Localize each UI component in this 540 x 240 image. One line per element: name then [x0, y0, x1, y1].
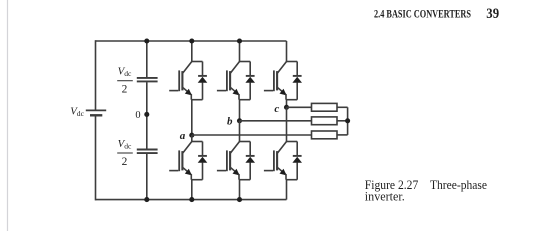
wire: leg b midpoint lower: [239, 121, 241, 142]
wire: phase c output line: [287, 106, 312, 108]
junction: bottom rail / capacitor leg: [144, 197, 149, 202]
svg-text:a: a: [180, 130, 186, 142]
phase b upper emitter join wire: [239, 99, 250, 101]
junction: load neutral point: [345, 118, 350, 123]
wire: leg a midpoint lower: [191, 135, 193, 141]
wire: left source wire upper: [95, 40, 97, 109]
IGBT Q1 (phase a upper): [169, 62, 192, 100]
phase c lower emitter join wire: [286, 179, 297, 181]
svg-text:2: 2: [122, 84, 128, 96]
node c (phase output): [284, 105, 289, 110]
svg-text:39: 39: [486, 6, 499, 22]
wire: leg a bottom rail drop: [191, 180, 193, 200]
IGBT Q4 (phase a lower): [169, 142, 192, 180]
diode D4 (antiparallel, phase a lower): [198, 142, 208, 180]
svg-text:2: 2: [122, 156, 128, 168]
wire: leg a top rail drop: [191, 41, 193, 62]
phase c upper collector jog wire: [287, 61, 298, 63]
IGBT Q6 (phase c lower): [264, 142, 287, 180]
wire: leg c top rail drop: [286, 41, 288, 62]
diode D1 (antiparallel, phase a upper): [198, 62, 208, 100]
phase c lower collector jog wire: [287, 141, 298, 143]
phase a lower collector jog wire: [192, 141, 203, 143]
IGBT Q5 (phase b lower): [217, 142, 240, 180]
phase a lower emitter join wire: [191, 179, 202, 181]
phase b lower emitter join wire: [239, 179, 250, 181]
node 0 (DC midpoint): [144, 112, 149, 117]
wire: leg c midpoint upper (to node c): [286, 100, 288, 108]
wire: bottom DC bus rail: [96, 199, 287, 201]
battery Vdc (DC source): [86, 110, 106, 115]
svg-text:2.4 BASIC CONVERTERS: 2.4 BASIC CONVERTERS: [374, 9, 471, 21]
node b (phase output): [237, 118, 242, 123]
wire: leg b top rail drop: [239, 41, 241, 62]
phase b lower collector jog wire: [240, 141, 251, 143]
capacitor C2 (lower half-bus): [137, 150, 158, 154]
svg-text:b: b: [227, 116, 233, 128]
junction: top rail / leg b: [237, 38, 242, 43]
wire: leg c midpoint lower: [286, 107, 288, 141]
phase a upper emitter join wire: [191, 99, 202, 101]
wire: leg a midpoint upper (to node a): [191, 100, 193, 136]
wire: top DC bus rail: [96, 40, 287, 42]
diode D5 (antiparallel, phase b lower): [245, 142, 255, 180]
wire: leg b bottom rail drop: [239, 180, 241, 200]
IGBT Q3 (phase c upper): [264, 62, 287, 100]
node a (phase output): [189, 133, 194, 138]
load resistor R1 (phase c): [312, 103, 338, 111]
svg-text:inverter.: inverter.: [365, 188, 405, 203]
wire: left source wire lower: [95, 116, 97, 200]
label Vdc/2 for C1: [117, 66, 133, 96]
junction: bottom rail / leg b: [237, 197, 242, 202]
load resistor R2 (phase b): [312, 117, 338, 125]
phase c upper emitter join wire: [286, 99, 297, 101]
phase b upper collector jog wire: [240, 61, 251, 63]
svg-text:0: 0: [135, 110, 140, 121]
load resistor R3 (phase a): [312, 131, 338, 139]
svg-text:c: c: [274, 103, 279, 115]
junction: bottom rail / leg a: [189, 197, 194, 202]
wire: load star connection right: [337, 107, 348, 135]
capacitor C1 (upper half-bus): [137, 78, 158, 82]
junction: top rail / capacitor leg: [144, 38, 149, 43]
diode D6 (antiparallel, phase c lower): [292, 142, 302, 180]
junction: top rail / leg a: [189, 38, 194, 43]
wire: leg b midpoint upper (to node b): [239, 100, 241, 121]
wire: capacitor leg lower (C2 to bottom rail): [146, 154, 148, 200]
wire: phase a output line: [192, 134, 312, 136]
wire: leg c bottom rail drop: [286, 180, 288, 200]
label Vdc/2 for C2: [117, 138, 133, 168]
wire: capacitor leg upper (top rail to C1): [146, 41, 148, 77]
phase a upper collector jog wire: [192, 61, 203, 63]
diode D2 (antiparallel, phase b upper): [245, 62, 255, 100]
IGBT Q2 (phase b upper): [217, 62, 240, 100]
wire: capacitor leg middle (C1 to C2 through node 0): [146, 82, 148, 149]
wire: phase b output line: [240, 120, 312, 122]
diode D3 (antiparallel, phase c upper): [292, 62, 302, 100]
